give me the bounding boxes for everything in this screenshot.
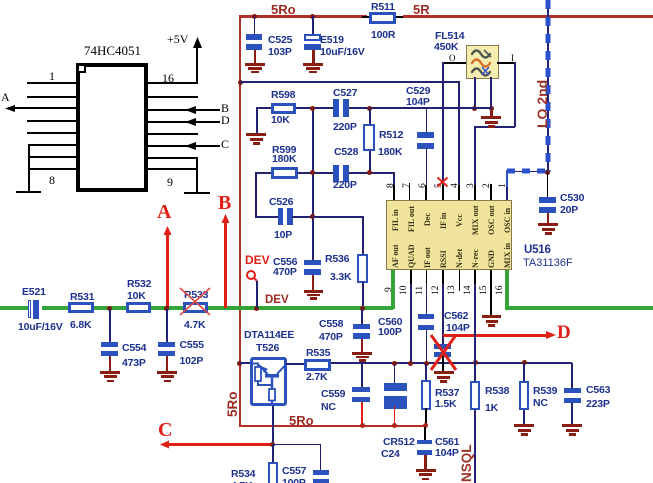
resistor R511 [362, 16, 369, 18]
right pin wire 5 [148, 133, 198, 135]
green bus right + pin16 riser [505, 270, 509, 309]
net label A (left) [1, 91, 10, 103]
left ground bar [16, 191, 41, 193]
resistor R536 [357, 254, 368, 283]
capacitor C528 [334, 147, 358, 158]
node dots y363 [392, 361, 397, 366]
node R512 bottom dot [367, 170, 372, 175]
wire C526 node to R536 [313, 216, 363, 218]
capacitor C530 [547, 172, 549, 197]
wire net y363 main rail [331, 362, 572, 364]
LO 2nd dashed jog to pin1 [507, 171, 547, 173]
green pin9 riser [391, 270, 395, 309]
capacitor C555 [166, 309, 168, 342]
pin 2 stub [490, 184, 492, 200]
capacitor C558 (from green bus) [361, 309, 363, 324]
transistor T526 DTA114EE [244, 330, 294, 341]
wire net y172 (R599-C528-pin8) [298, 172, 333, 174]
left pin wire 6 [28, 144, 76, 146]
right pin wire B arrow [148, 109, 220, 111]
node E519 rail dot [310, 14, 315, 19]
capacitor C526 [278, 208, 284, 225]
ground (C563) [562, 424, 582, 427]
wire FL514 I down [514, 62, 516, 127]
wire FL514 O down to pin 5 [442, 62, 444, 200]
right pin wire D arrow [148, 121, 220, 123]
right pin wire 7 [148, 157, 197, 159]
net label D [221, 114, 230, 126]
net marker A [157, 201, 171, 224]
+5V riser [196, 48, 198, 84]
5Ro bottom feed line [239, 425, 426, 428]
node dots 5Ro line [360, 423, 365, 428]
5Ro vertical feed line [239, 15, 242, 427]
ground (C530) [547, 213, 550, 223]
capacitor C563 [571, 363, 573, 388]
wire FL514 I left jog [474, 126, 515, 128]
resistor R537 [425, 364, 427, 381]
ground (C561) [424, 455, 427, 469]
net label C [221, 138, 229, 150]
pin number 1 [49, 70, 55, 82]
5R rail label [413, 3, 430, 16]
ground (C562) [434, 371, 454, 374]
pin-1 notch square [77, 64, 86, 73]
ground (C555) [166, 356, 169, 371]
label 74HC4051 [84, 44, 141, 57]
resistor R533 (crossed out) [183, 302, 208, 313]
resistor R534 [272, 445, 274, 462]
DEV terminal circle [245, 269, 261, 285]
wire R598 left down [256, 107, 258, 133]
wire Vcc feed vertical to pin 4 [458, 81, 460, 200]
U516 bottom pin numbers 9..16 [384, 287, 394, 292]
IC U? 74HC4051 body [76, 63, 148, 192]
wire down to pin 3 MIX out [474, 126, 476, 201]
capacitor C561 [424, 427, 426, 440]
U516 bottom pin names [391, 245, 400, 268]
capacitor C559 below [361, 364, 363, 387]
node R512 top dot [367, 106, 372, 111]
5Ro rail label [271, 3, 296, 16]
pin number 9 [167, 176, 173, 188]
FL514 pin label I [511, 54, 514, 63]
resonator CR512 [394, 364, 396, 383]
resistor R512 [369, 108, 371, 124]
resistor R531 [68, 302, 94, 313]
capacitor C556 [304, 260, 321, 266]
ground (C558) [361, 339, 364, 352]
capacitor C560 on pin11 [426, 284, 428, 315]
wire R599 left loop to C526 [255, 172, 271, 174]
pin 15 GND stub [490, 270, 492, 315]
vertical x312 (y108 net down to C556) [312, 108, 314, 260]
DEV terminal label [245, 254, 270, 266]
+5V label [167, 33, 188, 45]
IC U516 body [386, 200, 512, 270]
wire C526 right to vertical [292, 216, 313, 218]
wire FL514 gnd stubs [474, 77, 476, 109]
black pin stubs top row [393, 185, 395, 200]
net marker B [218, 192, 231, 215]
wire Vcc feed horizontal [240, 81, 459, 83]
ground (pin15) [482, 315, 501, 318]
black pin stubs bottom row [410, 270, 412, 284]
right ground bar [184, 192, 210, 194]
5Ro top rail [239, 15, 367, 18]
node dots on green bus [107, 306, 112, 311]
left pin wire 1 [27, 82, 76, 84]
LO 2nd dashed line vertical [547, 0, 549, 172]
right pin wire 16 to +5V [148, 82, 197, 84]
wire FL514 I pin [497, 62, 515, 64]
node 5Ro/Vcc branch dot [238, 80, 243, 85]
wire pin10 down [410, 284, 412, 364]
node x312 dots [310, 106, 315, 111]
wire T526 collector down [272, 406, 274, 445]
left pin wire 8 [28, 168, 76, 170]
U516 top pin numbers 8..1 [386, 183, 396, 188]
left bus vertical to ground [28, 144, 30, 192]
X mark C562 [429, 333, 458, 372]
node LO2nd dot [545, 170, 550, 175]
resistor R599 [271, 167, 298, 179]
ground (C554) [109, 356, 112, 371]
5Ro rotated label [226, 391, 240, 417]
X mark pin 5 [436, 176, 449, 188]
wire FL514 O pin [442, 62, 466, 64]
green AF bus left [0, 306, 28, 310]
capacitor C527 [333, 99, 339, 117]
ground (C556) [312, 275, 315, 290]
pin 7 stub [409, 183, 411, 200]
wire pin1 OSC in [506, 170, 509, 187]
capacitor C554 [109, 309, 111, 342]
ground (FL514) [490, 108, 493, 116]
LO 2nd label [534, 80, 550, 128]
left pin wire 2 [27, 96, 76, 98]
capacitor E519 (electrolytic) [312, 16, 314, 34]
wire pin14 column down [474, 284, 476, 364]
right pin wire 2 [148, 96, 198, 98]
ground (R539) [514, 424, 534, 427]
capacitor C529 [426, 108, 428, 132]
resistor R538 [474, 363, 476, 381]
resistor R532 [126, 302, 151, 313]
net label B [221, 102, 229, 114]
wire net y108 (R598-C527-R512-C529-FL514) [256, 107, 333, 109]
ground (C525) [254, 50, 257, 64]
right bus vertical to ground [196, 157, 198, 193]
left pin wire 5 [27, 132, 76, 134]
capacitor C557 [272, 444, 321, 446]
pin 13 stub [459, 270, 461, 291]
wire T526 right pin to R535 [286, 363, 304, 365]
node C525 rail dot [252, 14, 257, 19]
left pin wire 4 [27, 120, 76, 122]
capacitor C525 [254, 16, 256, 34]
DEV net label [265, 295, 289, 307]
NSQL label [459, 444, 474, 482]
filter FL514 [466, 45, 499, 79]
resistor R535 [304, 359, 331, 371]
ground (E519) [312, 50, 315, 64]
node C dot [270, 442, 275, 447]
U516 top pin names [391, 209, 400, 231]
net marker D line [443, 334, 547, 337]
ground (R598) [246, 133, 266, 136]
wire T526 left pin [240, 362, 250, 364]
pin number 8 [49, 174, 55, 186]
wire DEV down to bus [256, 281, 258, 308]
pin number 16 [162, 72, 174, 84]
capacitor C562 on pin12 (crossed out) [442, 284, 444, 346]
FL514 pin label O [449, 54, 456, 63]
capacitor E521 (electrolytic inline) [28, 300, 32, 318]
node T526 base dot on 5Ro feed [237, 361, 242, 366]
resistor R598 [271, 103, 296, 114]
left pin wire A with arrow [8, 107, 76, 109]
right pin wire C arrow [148, 145, 220, 147]
right pin wire 8 [148, 168, 197, 170]
5Ro bottom label [289, 414, 314, 427]
node FL514 gnd dots [472, 106, 477, 111]
left pin wire 7 [28, 156, 76, 158]
net marker C [158, 419, 172, 442]
resistor R539 [523, 363, 525, 381]
